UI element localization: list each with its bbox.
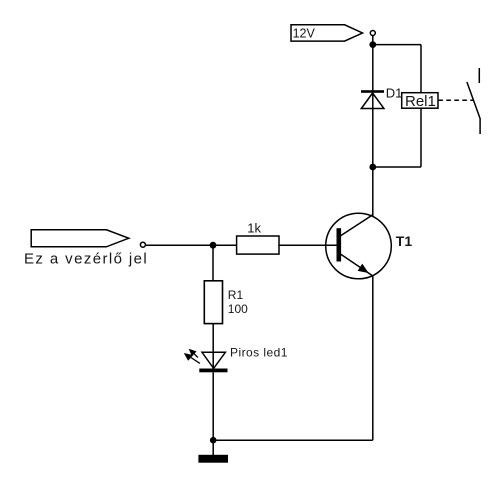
transistor T1 [326, 213, 392, 279]
resistor R1 [204, 281, 222, 324]
wire [373, 44, 421, 46]
svg-text:Piros led1: Piros led1 [230, 346, 288, 360]
wire [372, 93, 374, 217]
junction [210, 437, 217, 444]
wire [420, 45, 422, 167]
input flag [31, 230, 129, 247]
terminal circle [370, 31, 375, 36]
wire [372, 276, 374, 440]
junction [369, 164, 376, 171]
svg-text:1k: 1k [247, 221, 261, 236]
junction [210, 242, 217, 249]
svg-text:Ez a vezérlő jel: Ez a vezérlő jel [24, 250, 148, 267]
wire [372, 35, 374, 90]
wire [373, 166, 421, 168]
dashed actuation link [438, 99, 473, 101]
LED Piros led1 [184, 349, 228, 373]
power flag 12V [291, 25, 363, 41]
ground [198, 440, 228, 462]
wire [146, 244, 237, 246]
terminal circle [140, 242, 145, 247]
relay coil Rel1 [402, 93, 438, 109]
wire [213, 439, 373, 441]
svg-text:12V: 12V [293, 26, 316, 40]
wire [212, 245, 214, 281]
junction [369, 41, 376, 48]
wire [212, 372, 214, 440]
svg-text:100: 100 [228, 302, 248, 316]
relay switch contact [467, 68, 480, 134]
diode D1 [361, 90, 384, 108]
svg-text:R1: R1 [228, 288, 244, 302]
resistor 1k [237, 236, 279, 254]
svg-text:D1: D1 [386, 85, 403, 100]
wire [212, 324, 214, 372]
svg-text:T1: T1 [396, 233, 413, 249]
wire [279, 244, 337, 246]
svg-text:Rel1: Rel1 [405, 93, 436, 110]
